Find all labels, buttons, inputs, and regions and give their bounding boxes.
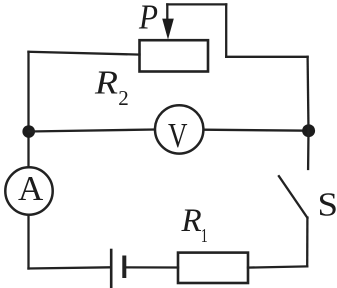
wire mid vertical xyxy=(225,4,227,56)
wire bottom-right horizontal xyxy=(248,266,307,267)
wire top-right horizontal xyxy=(226,56,307,58)
label R1 xyxy=(181,203,208,247)
battery cell long plate xyxy=(110,250,113,287)
wire top-left horizontal xyxy=(29,52,140,55)
svg-text:S: S xyxy=(318,186,337,223)
wire switch stub xyxy=(307,131,310,169)
node junction left xyxy=(22,125,35,138)
svg-text:1: 1 xyxy=(201,225,208,247)
svg-text:2: 2 xyxy=(118,86,129,110)
battery cell short plate xyxy=(122,258,126,277)
ammeter A circle xyxy=(5,167,52,214)
rheostat P body xyxy=(140,40,209,71)
wire left vertical lower xyxy=(27,216,29,269)
svg-text:P: P xyxy=(138,0,158,37)
node junction right xyxy=(302,124,315,137)
wire voltmeter right xyxy=(204,130,308,131)
wire bottom-left horizontal xyxy=(29,267,111,268)
resistor R1 body xyxy=(178,253,248,283)
svg-text:A: A xyxy=(18,169,44,208)
wire right vertical upper xyxy=(306,57,309,131)
switch S blade xyxy=(279,176,308,218)
wire voltmeter left xyxy=(29,130,155,132)
rheostat P slider arm xyxy=(162,4,174,39)
voltmeter V circle xyxy=(155,105,203,153)
svg-text:R: R xyxy=(94,65,118,102)
svg-text:R: R xyxy=(181,203,202,239)
wire slider top horizontal xyxy=(167,3,226,5)
wire right vertical lower xyxy=(306,218,308,267)
wire battery to R1 xyxy=(126,266,178,268)
label R2 xyxy=(94,65,129,111)
svg-text:V: V xyxy=(168,116,188,155)
wire left vertical upper xyxy=(27,52,29,167)
